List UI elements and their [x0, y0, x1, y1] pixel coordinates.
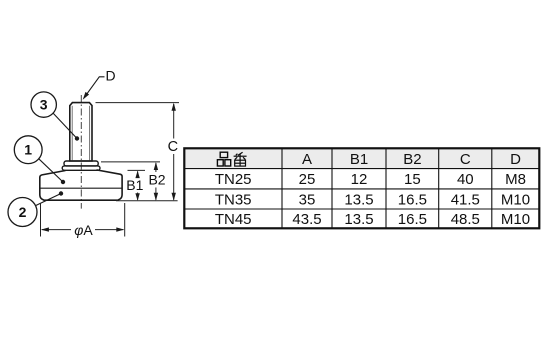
stud body (threaded)	[70, 103, 92, 161]
svg-text:3: 3	[40, 97, 48, 113]
svg-text:B1: B1	[126, 177, 143, 193]
table column line 5	[491, 148, 493, 228]
dimension phiA line	[42, 229, 71, 231]
centerline	[80, 95, 82, 209]
leader 1	[39, 159, 63, 182]
table column line 3	[385, 148, 387, 228]
table row line 1	[184, 168, 539, 170]
extension line phiA left	[40, 203, 42, 237]
svg-text:35: 35	[299, 191, 316, 208]
svg-text:16.5: 16.5	[398, 191, 427, 208]
svg-text:41.5: 41.5	[451, 191, 480, 208]
svg-text:D: D	[106, 68, 116, 84]
table column line 4	[438, 148, 440, 228]
leader D	[85, 77, 105, 97]
table column line 1	[281, 148, 283, 228]
leader 2	[36, 194, 61, 206]
dimension C line	[173, 104, 175, 139]
table row line 2	[184, 188, 539, 190]
thread line left	[71, 106, 73, 161]
extension line bottom	[116, 200, 178, 202]
washer band lower	[62, 166, 100, 170]
svg-text:B2: B2	[148, 171, 165, 187]
svg-text:B2: B2	[403, 151, 421, 168]
svg-text:TN25: TN25	[215, 171, 252, 188]
svg-text:2: 2	[19, 204, 27, 220]
dimension B1 line	[137, 171, 139, 178]
svg-text:15: 15	[404, 171, 421, 188]
svg-text:C: C	[460, 151, 471, 168]
thread line right	[89, 106, 91, 161]
extension line stud top	[96, 102, 180, 104]
svg-text:40: 40	[457, 171, 474, 188]
svg-text:16.5: 16.5	[398, 211, 427, 228]
leader 3	[53, 113, 77, 138]
svg-text:M8: M8	[505, 171, 526, 188]
table column line 2	[331, 148, 333, 228]
svg-text:13.5: 13.5	[344, 191, 373, 208]
svg-text:B1: B1	[350, 151, 368, 168]
table outer border	[184, 148, 539, 228]
svg-text:13.5: 13.5	[344, 211, 373, 228]
header 品番 glyph 品	[217, 152, 230, 166]
svg-text:1: 1	[24, 142, 32, 158]
svg-text:25: 25	[299, 171, 316, 188]
header 品番 glyph 番	[234, 152, 247, 166]
svg-text:A: A	[302, 151, 312, 168]
svg-text:D: D	[510, 151, 521, 168]
extension line base top (B1)	[128, 169, 146, 171]
svg-text:φA: φA	[74, 222, 93, 238]
svg-text:C: C	[168, 139, 178, 155]
balloon circle 3	[31, 92, 56, 117]
balloon circle 2	[8, 198, 37, 227]
base mid line	[40, 187, 122, 189]
dimension B2 line	[155, 163, 157, 172]
svg-text:M10: M10	[501, 191, 530, 208]
table header background	[185, 149, 538, 168]
extension line phiA right	[124, 203, 126, 237]
svg-text:TN45: TN45	[215, 211, 252, 228]
balloon circle 1	[14, 136, 42, 164]
extension line washer top	[101, 161, 160, 163]
svg-text:12: 12	[351, 171, 368, 188]
svg-text:48.5: 48.5	[451, 211, 480, 228]
table row line 3	[184, 208, 539, 210]
svg-text:43.5: 43.5	[292, 211, 321, 228]
svg-text:TN35: TN35	[215, 191, 252, 208]
base body outline	[40, 170, 122, 200]
washer band upper	[64, 161, 98, 166]
svg-text:M10: M10	[501, 211, 530, 228]
